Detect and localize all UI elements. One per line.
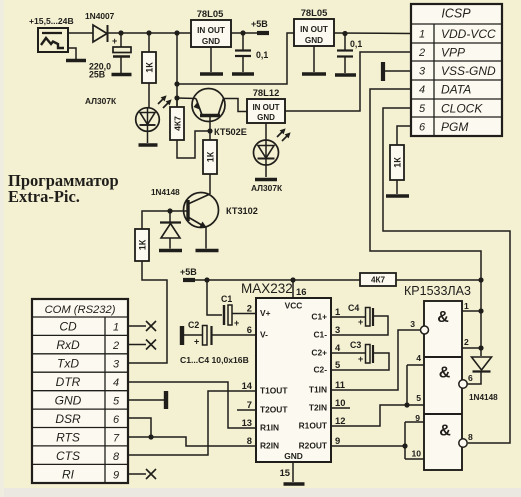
svg-text:VCC: VCC (285, 301, 303, 311)
wire +5V rail (195, 279, 360, 281)
wire C2 to V- (212, 334, 256, 336)
wire second rail to 78L05#2 input (177, 33, 294, 84)
svg-text:+15,5...24В: +15,5...24В (29, 16, 74, 26)
svg-text:9: 9 (415, 413, 420, 423)
svg-text:0,1: 0,1 (350, 39, 362, 49)
svg-text:C3: C3 (350, 340, 361, 350)
svg-text:4: 4 (335, 342, 341, 353)
svg-text:9: 9 (113, 469, 119, 481)
resistor R2 4K7 (176, 98, 178, 107)
svg-text:&: & (439, 423, 451, 440)
wire collector to 78L12 (224, 99, 248, 112)
svg-text:C4: C4 (348, 303, 359, 313)
svg-text:1N4007: 1N4007 (85, 11, 115, 21)
gate1 output pin3 bubble (421, 326, 429, 334)
MAX232 pin 10 stub (331, 407, 350, 409)
svg-text:T1IN: T1IN (309, 385, 327, 395)
svg-text:78L05: 78L05 (301, 7, 328, 18)
svg-text:12: 12 (335, 415, 345, 426)
wire C1 to V+ (232, 313, 256, 315)
svg-text:1: 1 (113, 322, 119, 334)
svg-text:DATA: DATA (441, 83, 471, 97)
svg-text:C2+: C2+ (311, 348, 327, 358)
svg-text:R2IN: R2IN (260, 441, 279, 451)
ground (under 0,1 #2) (335, 73, 356, 77)
svg-text:COM (RS232): COM (RS232) (45, 304, 116, 316)
svg-text:TxD: TxD (57, 357, 79, 371)
svg-text:C1...C4 10,0x16В: C1...C4 10,0x16В (180, 355, 249, 365)
wire R4 to TxD (128, 261, 167, 363)
resistor R5 1K (PGM pulldown) (390, 145, 404, 180)
svg-text:КТ502Е: КТ502Е (214, 127, 247, 137)
power connector J1 (38, 28, 68, 52)
svg-text:RxD: RxD (56, 338, 80, 352)
ground (under HL2) (255, 178, 277, 182)
svg-text:GND: GND (305, 36, 323, 45)
svg-text:T2OUT: T2OUT (260, 405, 288, 415)
svg-text:14: 14 (242, 380, 253, 391)
svg-text:DSR: DSR (55, 412, 81, 426)
wire 4K7 to base (177, 131, 210, 158)
svg-text:1: 1 (464, 301, 469, 311)
node second rail (174, 81, 179, 86)
svg-text:+: + (194, 337, 199, 347)
wire DTR to R1IN (128, 382, 256, 428)
svg-text:1: 1 (335, 306, 340, 317)
wire CLOCK net (383, 108, 510, 443)
svg-text:VSS-GND: VSS-GND (441, 64, 496, 78)
MAX232 pin 15 GND (292, 462, 294, 482)
node VDD out (342, 31, 347, 36)
svg-text:RI: RI (62, 467, 75, 481)
svg-text:78L05: 78L05 (197, 8, 224, 19)
svg-text:0,1: 0,1 (256, 50, 268, 60)
resistor R3 1K (209, 131, 211, 140)
svg-text:11: 11 (335, 379, 345, 390)
ground (under U3) (302, 72, 326, 76)
svg-text:+: + (358, 317, 363, 327)
svg-text:1: 1 (419, 29, 425, 41)
svg-text:GND: GND (284, 451, 303, 461)
svg-text:T1OUT: T1OUT (260, 386, 288, 396)
svg-text:4К7: 4К7 (371, 276, 386, 285)
svg-text:IN OUT: IN OUT (197, 26, 225, 35)
wire CD n.c. (128, 325, 146, 327)
diode VD3 1N4148 (472, 357, 492, 370)
terminal bar GND5 (164, 391, 168, 409)
capacitor 0,1 #1 (242, 33, 244, 50)
svg-text:R1OUT: R1OUT (299, 421, 328, 431)
node base KT502E (209, 116, 211, 131)
svg-text:C1+: C1+ (311, 312, 327, 322)
node at R1 top (146, 30, 151, 35)
svg-text:1К: 1К (138, 239, 148, 250)
wire RTS to R2IN (128, 437, 256, 446)
wire R2OUT to pins9,10 (331, 445, 405, 447)
gate block DD1 (424, 301, 462, 470)
ground (under Q2 emitter) (196, 249, 219, 253)
wire VSS-GND stub (385, 70, 411, 72)
svg-text:DTR: DTR (56, 375, 81, 389)
svg-text:10: 10 (335, 397, 345, 408)
svg-text:13: 13 (242, 417, 252, 428)
svg-text:C1: C1 (221, 294, 232, 304)
ground (under 220,0 cap) (112, 73, 132, 77)
ground (under MAX232) (284, 482, 305, 486)
svg-text:R1IN: R1IN (260, 423, 279, 433)
svg-text:RTS: RTS (56, 430, 80, 444)
wire connector ground stub (68, 48, 76, 59)
svg-text:T2IN: T2IN (309, 403, 327, 413)
svg-text:R2OUT: R2OUT (299, 441, 328, 451)
ground (under 0,1 #1) (232, 72, 254, 76)
svg-text:+: + (112, 36, 117, 46)
node raw+ at C 220,0 (118, 30, 123, 35)
svg-text:5: 5 (335, 359, 340, 370)
svg-text:5: 5 (113, 396, 120, 408)
svg-text:4: 4 (416, 353, 421, 363)
node emitter junction (174, 95, 179, 100)
svg-text:АЛ307К: АЛ307К (251, 183, 283, 193)
svg-text:V+: V+ (260, 308, 271, 318)
svg-text:GND: GND (202, 37, 220, 46)
wire connector to diode (68, 32, 93, 34)
svg-text:1К: 1К (393, 157, 403, 168)
MAX232 pin 7 stub (237, 409, 256, 411)
svg-text:8: 8 (247, 435, 252, 446)
svg-text:4К7: 4К7 (173, 116, 183, 131)
wire base Q2 (170, 210, 188, 212)
node rail/VCC (290, 277, 295, 282)
svg-text:2: 2 (464, 337, 469, 347)
svg-text:GND: GND (257, 113, 275, 122)
svg-text:25В: 25В (89, 70, 105, 80)
node base Q2 (167, 208, 172, 213)
svg-text:КТ3102: КТ3102 (226, 206, 258, 216)
svg-text:8: 8 (468, 432, 473, 442)
wire 4K7 to DATA line (396, 279, 481, 281)
svg-text:10: 10 (411, 449, 421, 459)
svg-text:2: 2 (112, 340, 119, 352)
svg-text:CD: CD (59, 320, 77, 334)
resistor R6 4K7 (pullup) (360, 273, 396, 286)
wire 78L05#1 gnd (210, 47, 212, 72)
svg-text:+5В: +5В (180, 267, 197, 277)
svg-text:1N4148: 1N4148 (151, 188, 180, 197)
svg-text:3: 3 (335, 324, 340, 335)
ground (under U2) (200, 72, 223, 76)
gate3 pin10 (405, 458, 424, 460)
ground terminal bar (VSS) (381, 62, 385, 81)
wire 78L05#1 out (231, 32, 257, 34)
node +5V out (240, 30, 245, 35)
svg-text:IN OUT: IN OUT (252, 103, 279, 112)
svg-text:4: 4 (113, 377, 119, 389)
connector COM(RS232) table (32, 299, 128, 483)
wire 78L05#2 out to ICSP pin1 (334, 32, 411, 35)
wire CTS to T1OUT (128, 391, 256, 455)
svg-text:КР1533ЛА3: КР1533ЛА3 (404, 284, 471, 298)
svg-text:16: 16 (296, 286, 306, 297)
gate3 pin9 (405, 421, 424, 423)
svg-text:1К: 1К (206, 151, 216, 162)
wire DATA net (370, 89, 481, 356)
node DATA/4K7 (478, 277, 483, 282)
svg-text:5: 5 (416, 393, 421, 403)
svg-text:8: 8 (113, 451, 120, 463)
svg-text:PGM: PGM (441, 120, 468, 134)
svg-text:4: 4 (419, 84, 425, 96)
gate2 pin4 (407, 364, 424, 366)
svg-text:&: & (439, 365, 451, 382)
wire RI n.c. (128, 473, 146, 475)
svg-text:3: 3 (419, 66, 426, 78)
gate2 pin5 (407, 404, 424, 406)
svg-text:+: + (358, 354, 363, 364)
svg-text:VPP: VPP (441, 46, 465, 60)
svg-text:3: 3 (410, 319, 415, 329)
ground (under HL1) (139, 143, 158, 147)
gate2 output pin6 bubble (459, 380, 467, 388)
LED HL2 AL307K (254, 140, 279, 165)
svg-text:GND: GND (55, 394, 82, 408)
wire 78L05#2 gnd (313, 46, 315, 72)
gate3 output pin8 bubble (459, 439, 467, 447)
svg-text:V-: V- (260, 330, 268, 340)
transistor Q1 KT502E (192, 89, 225, 122)
node rail/C1 (204, 277, 209, 282)
connector ICSP table (411, 4, 502, 136)
svg-text:1К: 1К (145, 62, 155, 73)
svg-text:+5В: +5В (251, 19, 268, 29)
wire RxD n.c. (128, 344, 146, 346)
wire VPP: 78L12 out to ICSP pin2 (285, 52, 411, 111)
gate1 pin2 (462, 347, 481, 349)
svg-text:2: 2 (418, 47, 425, 59)
svg-text:&: & (437, 309, 449, 326)
wire DSR to RTS (128, 418, 151, 437)
wire raw vertical (176, 33, 178, 107)
transistor Q2 KT3102 (184, 193, 219, 228)
svg-text:CLOCK: CLOCK (441, 102, 483, 116)
svg-text:C1-: C1- (314, 330, 328, 340)
wire GND5 (128, 399, 164, 401)
wire diode to regulator input rail (108, 32, 191, 34)
svg-text:АЛ307К: АЛ307К (85, 96, 117, 106)
MAX232 pin 16 VCC (292, 280, 294, 298)
node DSR/RTS (148, 434, 153, 439)
resistor R1 1K (148, 33, 150, 52)
wire pin3 to T1IN (331, 330, 420, 390)
ground (under R5) (386, 194, 409, 198)
ground (under VD2) (159, 249, 182, 253)
wire 78L12 gnd to LED (265, 123, 267, 140)
svg-text:1N4148: 1N4148 (469, 393, 498, 402)
wire R1OUT to pins4,5 (331, 405, 407, 426)
svg-text:VDD-VCC: VDD-VCC (441, 27, 496, 41)
svg-text:78L12: 78L12 (253, 87, 280, 98)
capacitor 0,1 #2 (344, 33, 346, 50)
svg-text:9: 9 (335, 435, 340, 446)
svg-text:15: 15 (280, 467, 290, 478)
svg-text:CTS: CTS (56, 449, 80, 463)
wire PGM stub (397, 126, 411, 145)
svg-text:3: 3 (113, 359, 120, 371)
svg-text:7: 7 (113, 432, 120, 444)
svg-text:C2: C2 (188, 320, 199, 330)
svg-text:ICSP: ICSP (441, 7, 471, 21)
svg-text:6: 6 (113, 414, 120, 426)
resistor R4 1K (142, 211, 170, 229)
svg-text:6: 6 (468, 373, 473, 383)
ground (under connector) (66, 59, 86, 63)
gate1 pin1 (462, 310, 481, 312)
svg-text:MAX232: MAX232 (241, 281, 293, 296)
node rail/vertical (174, 30, 179, 35)
svg-text:7: 7 (247, 399, 252, 410)
svg-text:IN OUT: IN OUT (300, 25, 328, 34)
svg-text:6: 6 (419, 122, 426, 134)
svg-text:2: 2 (247, 303, 252, 314)
svg-text:6: 6 (247, 324, 252, 335)
svg-text:Extra-Pic.: Extra-Pic. (8, 187, 80, 206)
svg-text:5: 5 (419, 103, 426, 115)
svg-text:+: + (234, 318, 239, 328)
svg-text:C2-: C2- (314, 365, 328, 375)
